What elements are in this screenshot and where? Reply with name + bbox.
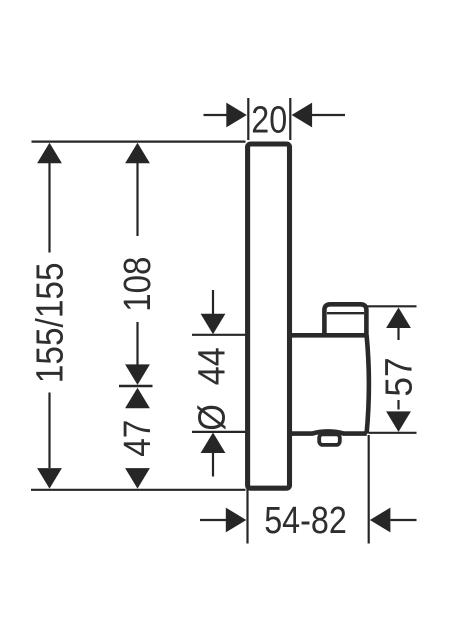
svg-text:155/155: 155/155 [28,262,70,383]
svg-text:47: 47 [116,420,158,457]
svg-text:Ø 44: Ø 44 [190,347,233,431]
svg-text:108: 108 [116,257,159,312]
svg-text:57: 57 [377,357,419,396]
svg-text:54-82: 54-82 [264,500,347,542]
svg-text:20: 20 [251,99,287,141]
